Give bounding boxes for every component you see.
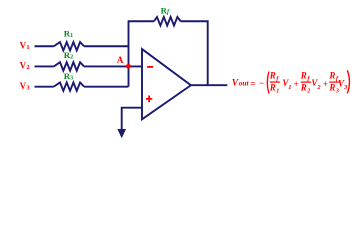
svg-text:out: out <box>239 79 250 88</box>
resistor R1 label <box>64 29 73 39</box>
wire R2 to node A <box>84 65 129 67</box>
wire R3 to bus <box>84 86 129 88</box>
wire output <box>191 84 227 86</box>
svg-text:1: 1 <box>26 44 29 51</box>
svg-text:R: R <box>269 71 276 81</box>
wire node A to inverting input <box>129 65 143 67</box>
svg-text:3: 3 <box>26 84 30 91</box>
svg-text:2: 2 <box>70 54 73 60</box>
svg-text:3: 3 <box>70 75 73 81</box>
svg-text:1: 1 <box>276 88 279 94</box>
svg-text:A: A <box>117 55 124 65</box>
svg-text:f: f <box>307 75 310 82</box>
svg-text:1: 1 <box>288 84 291 91</box>
resistor R1 <box>54 42 84 50</box>
wire non-inverting input <box>122 108 142 130</box>
resistor R2 <box>54 62 84 70</box>
node V2 label <box>20 61 30 72</box>
svg-text:−: − <box>259 78 264 88</box>
op-amp plus sign <box>146 95 152 102</box>
wire R1 to bus <box>84 45 129 47</box>
wire V3 input <box>35 86 54 88</box>
ground arrow <box>117 129 126 138</box>
wire Rf to output node <box>181 21 208 85</box>
svg-text:R: R <box>328 71 335 81</box>
svg-text:R: R <box>300 71 307 81</box>
op-amp U1 <box>142 49 191 119</box>
wire V1 input <box>35 45 54 47</box>
node V3 label <box>20 81 31 92</box>
svg-text:R: R <box>300 82 307 92</box>
svg-text:3: 3 <box>343 84 348 91</box>
svg-text:f: f <box>276 75 279 82</box>
wire summing bus vertical <box>128 21 130 86</box>
svg-text:2: 2 <box>316 84 321 91</box>
resistor Rf label <box>161 6 170 16</box>
svg-text:R: R <box>328 82 335 92</box>
op-amp minus sign <box>147 66 153 68</box>
svg-text:+: + <box>294 79 299 89</box>
resistor R2 label <box>64 50 73 61</box>
wire V2 input <box>35 65 54 67</box>
formula Vout = -(Rf/R1 V1 + Rf/R2 V2 + Rf/R3 V3) <box>232 70 350 94</box>
resistor Rf <box>154 17 181 26</box>
svg-text:1: 1 <box>70 33 73 39</box>
svg-text:2: 2 <box>26 64 29 71</box>
svg-text:3: 3 <box>335 88 339 94</box>
svg-text:=: = <box>250 78 255 88</box>
resistor R3 <box>54 82 84 90</box>
node A junction dot <box>126 64 131 69</box>
resistor R3 label <box>64 71 73 82</box>
svg-text:+: + <box>323 79 328 89</box>
node V1 label <box>20 40 30 51</box>
svg-text:2: 2 <box>306 88 310 94</box>
wire feedback top <box>128 20 154 22</box>
svg-text:f: f <box>167 9 170 16</box>
svg-text:R: R <box>269 82 276 92</box>
